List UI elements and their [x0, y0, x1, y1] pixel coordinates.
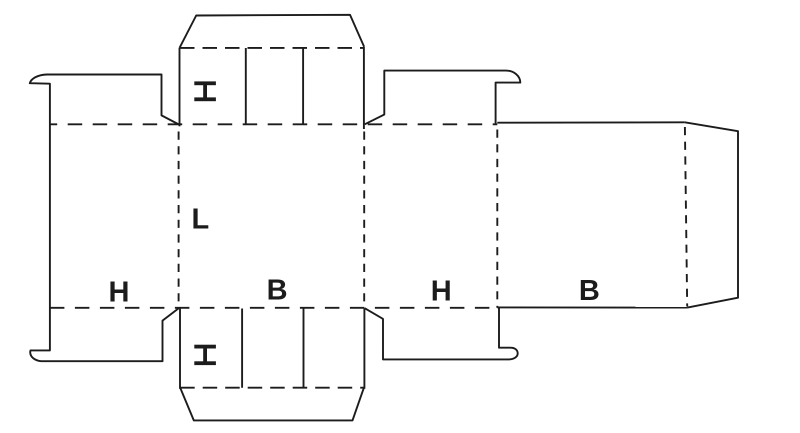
lid panel right edge	[363, 46, 365, 129]
vertical fold panel1/2 (dashed)	[178, 132, 180, 308]
svg-text:L: L	[192, 204, 210, 236]
lid fold (dashed)	[180, 47, 364, 49]
main top fold (dashed)	[50, 123, 497, 125]
svg-text:B: B	[267, 274, 288, 306]
bottom-right dust flap (below panel 3)	[365, 308, 518, 360]
bottom lid trapezoid	[180, 388, 364, 421]
vertical fold panel4/tab (dashed, slightly tilted)	[685, 127, 687, 307]
left column outline (panel1 side flaps + left edge, with curls)	[30, 75, 179, 362]
main bottom fold (dashed)	[50, 307, 497, 309]
bottom panel left edge	[179, 308, 181, 389]
rotated label H top lid	[194, 81, 216, 101]
lid panel left edge	[179, 48, 181, 126]
bottom slot line 1	[241, 309, 243, 388]
panel 4 bottom edge	[497, 306, 687, 308]
svg-text:H: H	[431, 276, 452, 308]
top-right dust flap (above panel 3)	[365, 71, 521, 125]
lid slot line 1	[245, 48, 247, 124]
lid slot line 2	[302, 48, 304, 124]
rotated label H bottom lid	[194, 345, 216, 365]
svg-text:B: B	[579, 275, 600, 307]
bottom panel right edge	[363, 308, 365, 389]
vertical fold panel3/4 (dashed)	[496, 130, 498, 308]
svg-text:H: H	[109, 277, 130, 309]
vertical fold panel2/3 (dashed)	[363, 132, 365, 308]
bottom slot line 2	[303, 309, 305, 388]
right tab outline	[685, 122, 738, 307]
top lid trapezoid	[180, 15, 364, 48]
bottom inner fold (dashed)	[180, 387, 364, 389]
panel 4 top edge	[497, 121, 685, 123]
